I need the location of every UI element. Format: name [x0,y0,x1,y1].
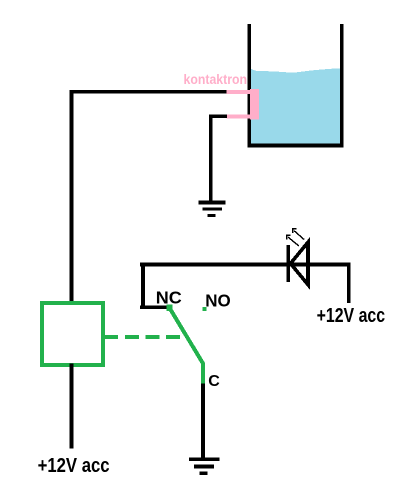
svg-text:C: C [208,373,220,390]
switch lever (green) [171,310,204,364]
reed switch bottom lead [227,114,251,118]
ground 1 [199,201,226,218]
LED light arrow 1 [286,235,299,246]
relay actuation dashed link [104,335,184,339]
NO contact dot [202,307,206,311]
wire: reed bottom lead to ground [209,114,227,118]
wire: NC branch vertical [141,263,145,308]
NC contact dot [167,305,173,312]
wire: short horizontal to NC contact [140,305,168,309]
wire: top horizontal to reed switch [70,90,227,94]
wire: right vertical to +12V acc [347,263,351,304]
LED light arrow 2 [292,228,304,239]
LED D1 triangle [291,242,309,285]
svg-text:NC: NC [156,287,182,307]
wire: C to ground 2 [201,383,205,458]
wire: left vertical down to relay [70,90,74,301]
svg-text:+12V acc: +12V acc [38,455,110,477]
svg-text:+12V acc: +12V acc [317,305,386,327]
ground 2 [189,457,219,475]
LED D1 cathode bar [287,245,291,282]
lever lower vertical segment [201,363,205,384]
wire: vertical down to ground 1 [209,114,213,202]
wire: NC branch horizontal top [140,263,350,267]
wire: relay bottom to +12V acc [70,364,74,449]
reed switch (kontaktron) pink body [250,89,259,120]
water [251,68,340,144]
svg-text:kontaktron: kontaktron [184,71,248,87]
tank [248,24,344,148]
svg-text:NO: NO [205,290,231,310]
relay coil U1 [42,303,103,365]
reed switch top lead [227,90,251,94]
